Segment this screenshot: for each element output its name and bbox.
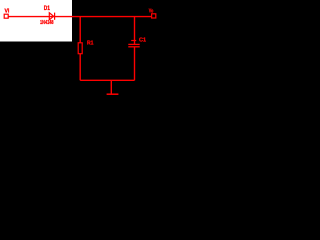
resistor R1 body xyxy=(78,43,82,54)
svg-text:D1: D1 xyxy=(44,6,51,12)
svg-text:R1: R1 xyxy=(87,41,94,47)
output terminal square xyxy=(152,14,156,18)
ground bar xyxy=(107,93,119,95)
capacitor C1 top plate xyxy=(128,43,139,45)
svg-text:1N4148: 1N4148 xyxy=(40,20,54,26)
wire resistor R1 to bottom node xyxy=(79,54,81,81)
wire capacitor C1 to bottom node xyxy=(134,47,136,80)
input terminal square xyxy=(4,14,8,18)
wire bottom node to ground xyxy=(110,80,112,94)
capacitor C1 bottom plate xyxy=(128,46,139,48)
diode D1 xyxy=(49,13,54,20)
white schematic canvas area xyxy=(0,0,72,42)
svg-text:C1: C1 xyxy=(139,38,146,44)
svg-text:Vo: Vo xyxy=(149,8,154,14)
capacitor C1 polarity plus mark xyxy=(131,40,136,42)
wire top node down to capacitor C1 xyxy=(134,17,136,44)
black background xyxy=(0,0,161,100)
bottom wire resistor to capacitor xyxy=(80,79,134,81)
wire input to output through diode xyxy=(8,16,151,18)
wire top node down to resistor R1 xyxy=(79,17,81,43)
svg-text:Vi: Vi xyxy=(5,9,10,15)
